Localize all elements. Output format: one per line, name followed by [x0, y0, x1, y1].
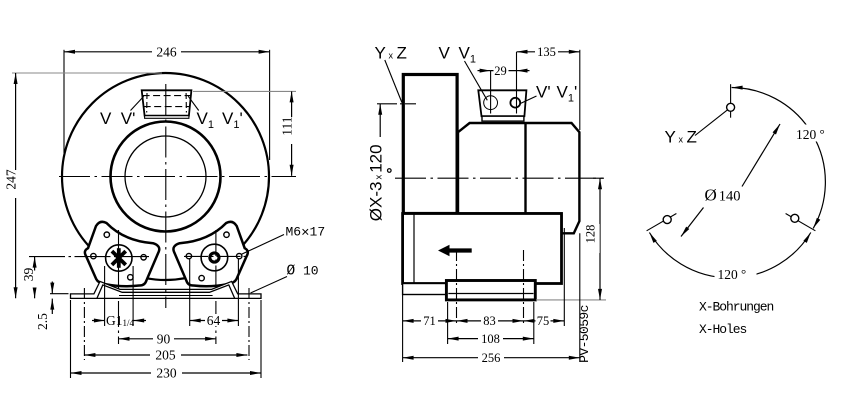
svg-text:X-Holes: X-Holes: [699, 322, 747, 337]
port dashed thread lines: [143, 95, 191, 97]
svg-text:PV-5059c: PV-5059c: [577, 305, 592, 363]
arc bottom 120: [649, 233, 810, 278]
svg-text:256: 256: [482, 351, 501, 365]
flange horizontal centerlines: [29, 256, 149, 258]
svg-text:83: 83: [483, 314, 496, 328]
dim 128: [593, 177, 604, 179]
svg-text:39: 39: [21, 268, 36, 282]
leader V': [131, 96, 144, 110]
dim 90: [119, 338, 217, 340]
port trapezoid top: [142, 90, 192, 115]
svg-text:108: 108: [481, 332, 500, 346]
svg-text:71: 71: [423, 314, 436, 328]
svg-text:29: 29: [494, 64, 507, 78]
64 extension lines: [189, 259, 191, 326]
svg-text:120 °: 120 °: [796, 126, 825, 142]
arc top-right 120: [732, 88, 826, 229]
svg-text:V': V': [536, 83, 551, 102]
dim 230: [70, 300, 72, 378]
svg-text:V': V': [121, 109, 136, 128]
radial tick top: [730, 84, 732, 118]
dim 64: [190, 320, 239, 322]
centerline horizontal: [59, 176, 296, 178]
dim 111: [193, 90, 296, 92]
dim G1 1/4: [92, 320, 105, 322]
body outline: [458, 123, 579, 233]
top port: [478, 90, 526, 116]
G1/4 extension lines: [104, 266, 106, 326]
direction arrow: [438, 245, 472, 256]
base plate side: [403, 284, 447, 295]
tab hole centerlines: [83, 288, 85, 360]
svg-text:ØX-3x120: ØX-3x120: [367, 144, 386, 221]
svg-text:128: 128: [584, 225, 598, 244]
arrow up to hole line: [379, 104, 381, 137]
svg-text:111: 111: [280, 116, 295, 135]
dim 2.5: [50, 293, 69, 295]
flange vertical centerlines: [118, 230, 120, 344]
stage division line: [524, 123, 526, 214]
svg-text:75: 75: [537, 314, 550, 328]
centerline horizontal: [395, 177, 604, 179]
svg-text:V: V: [439, 44, 451, 63]
dim 39: [28, 256, 30, 258]
motor rect: [403, 75, 457, 214]
dim 246: [63, 50, 65, 153]
port band: [145, 116, 189, 119]
port vertical centerlines / ext: [490, 71, 492, 114]
radial tick bottom-left: [647, 214, 677, 231]
svg-text:230: 230: [156, 366, 177, 381]
left flange small holes: [104, 232, 109, 237]
dia 140 arrows: [742, 124, 780, 187]
svg-text:120 °: 120 °: [718, 266, 747, 282]
left flange big circle with asterisk: [106, 245, 132, 271]
dim 256: [579, 233, 581, 362]
lower rect: [403, 214, 562, 284]
right flange donut: [201, 244, 228, 271]
svg-text:2.5: 2.5: [35, 313, 50, 330]
svg-text:246: 246: [156, 44, 177, 59]
svg-text:Ø140: Ø140: [705, 186, 741, 205]
centerline vertical: [165, 84, 167, 308]
dim 29: [478, 70, 491, 72]
base plate: [71, 281, 262, 298]
radial tick bottom-right: [786, 214, 816, 231]
dim 108: [447, 302, 449, 344]
svg-text:V1': V1': [222, 109, 243, 131]
label V V' V1 V1': [100, 109, 243, 131]
inner circle: [125, 136, 206, 217]
right flange small holes: [224, 232, 229, 237]
svg-text:135: 135: [537, 45, 556, 59]
bolt hole top: [727, 103, 735, 111]
bolt hole bottom-left: [663, 216, 671, 224]
svg-text:247: 247: [4, 169, 19, 190]
dim 135: [579, 50, 581, 130]
svg-text:64: 64: [207, 313, 221, 328]
inner vertical: [413, 214, 415, 284]
plate inner ramp lines: [97, 285, 235, 299]
svg-text:90: 90: [157, 331, 171, 346]
left flange: [85, 222, 159, 286]
port centerlines in strip: [456, 250, 458, 326]
outer circle: [62, 73, 269, 280]
leader V1: [188, 96, 199, 110]
right flange: [173, 222, 247, 286]
svg-text:V: V: [100, 109, 112, 128]
dim 205: [84, 354, 247, 356]
flange strip: [446, 281, 535, 300]
dim 247: [12, 72, 162, 74]
svg-text:Ø 10: Ø 10: [287, 264, 319, 280]
bottom dims 71 83 75: [402, 295, 404, 363]
svg-text:X-Bohrungen: X-Bohrungen: [699, 300, 774, 315]
mid thick circle: [111, 122, 221, 232]
svg-text:M6×17: M6×17: [286, 225, 326, 242]
svg-text:205: 205: [155, 348, 176, 363]
svg-text:V1': V1': [557, 83, 578, 105]
bolt hole bottom-right: [791, 214, 799, 222]
